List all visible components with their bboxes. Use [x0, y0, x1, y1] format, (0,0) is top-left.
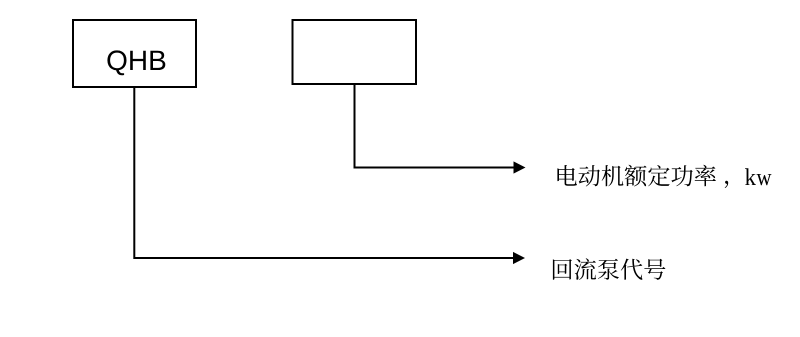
label: kw unit	[745, 168, 771, 185]
box QHB	[73, 20, 196, 87]
label: motor rated power 电动机额定功率，	[557, 165, 728, 188]
label QHB	[107, 50, 165, 75]
wire from motor power box	[355, 84, 515, 168]
wire from QHB box	[134, 87, 514, 258]
label: reflux pump code 回流泵代号	[553, 258, 665, 280]
arrowhead lower	[513, 252, 525, 264]
arrowhead upper	[514, 161, 526, 173]
box motor power (empty)	[293, 20, 417, 84]
